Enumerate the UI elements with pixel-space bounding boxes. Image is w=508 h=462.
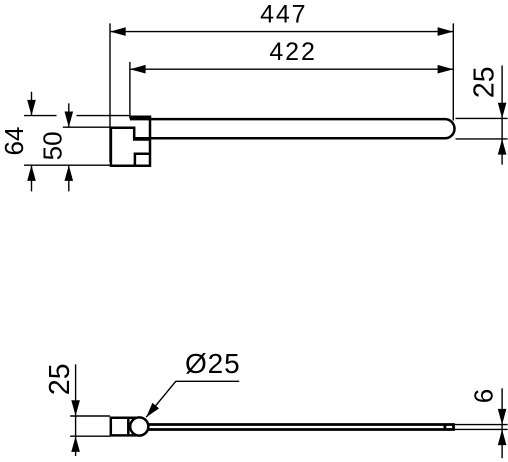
svg-text:447: 447 <box>260 1 307 29</box>
dimension line 25 right vertical <box>501 65 503 164</box>
arrow plan-6 top <box>498 409 507 425</box>
extension line left (447) <box>109 23 111 162</box>
extension line 50 top <box>63 126 112 128</box>
extension line 64 top (two segments) <box>24 115 130 117</box>
bracket lower square <box>135 154 150 166</box>
plan: bar lines <box>148 425 454 430</box>
arrow 50 top <box>65 112 74 128</box>
dimension line 50 vertical <box>68 103 70 191</box>
bar tube outline <box>130 119 455 138</box>
plan: pivot circle <box>130 417 148 435</box>
arrow plan-6 bottom <box>498 429 507 445</box>
plan: plate rectangle <box>111 418 136 436</box>
extension line bar-start (422) <box>129 62 131 119</box>
extension line right end <box>452 23 454 120</box>
svg-text:422: 422 <box>269 38 316 66</box>
arrow 447 right <box>438 27 454 36</box>
dimension line 64 vertical <box>31 92 33 192</box>
plan: 25 extension lines <box>70 416 110 436</box>
dimension line 422 <box>130 68 453 70</box>
arrow leader <box>146 403 159 417</box>
arrow 50 bottom <box>65 165 74 181</box>
arrow 64 top <box>27 100 36 116</box>
dimension line 447 <box>110 31 453 33</box>
svg-text:6: 6 <box>469 389 499 403</box>
leader line for diameter 25 <box>146 381 239 417</box>
svg-text:Ø25: Ø25 <box>185 348 241 379</box>
plan: 6 extension lines <box>455 425 508 430</box>
arrow plan-25 bottom <box>71 436 80 452</box>
arrow 422 right <box>438 65 454 74</box>
extension lines 25 right <box>456 118 508 138</box>
bracket outline <box>111 117 150 166</box>
svg-text:50: 50 <box>38 131 68 160</box>
arrow 25R top <box>498 103 507 119</box>
svg-text:64: 64 <box>0 127 29 156</box>
plan: 25 dimension vertical <box>75 364 77 456</box>
svg-text:25: 25 <box>44 363 76 395</box>
svg-text:25: 25 <box>469 66 501 98</box>
arrow 64 bottom <box>27 165 36 181</box>
arrow 25R bottom <box>498 139 507 155</box>
plan: 6 dimension vertical <box>501 388 503 458</box>
extension line bottom (64/50) <box>24 164 111 166</box>
arrow 422 left <box>130 65 146 74</box>
plan: bar joint tick <box>443 425 446 430</box>
arrow plan-25 top <box>71 400 80 416</box>
arrow 447 left <box>110 27 126 36</box>
